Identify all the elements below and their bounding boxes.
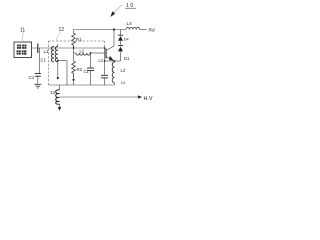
dashed block 12: [49, 41, 105, 85]
emitter wire: [104, 60, 121, 62]
wire jog: [73, 48, 75, 53]
top bus wire: [74, 29, 127, 31]
svg-text:11: 11: [20, 28, 25, 34]
transistor Q1: [106, 46, 114, 61]
node winding bottom: [57, 77, 59, 79]
node base branch: [90, 52, 92, 54]
svg-text:C2: C2: [98, 58, 104, 63]
collector wire: [113, 30, 115, 47]
output wire H.V: [60, 95, 143, 98]
svg-text:H.V: H.V: [144, 96, 153, 102]
inductor L3 emitter: [112, 61, 114, 85]
svg-text:C1: C1: [29, 75, 35, 80]
capacitor C3 branch: [101, 48, 108, 85]
svg-text:13: 13: [50, 90, 56, 95]
arrow down: [58, 107, 61, 111]
node C1 branch: [37, 44, 39, 54]
inductor L4: [126, 27, 147, 29]
svg-text:C1: C1: [41, 58, 47, 63]
ground bus wire: [49, 84, 115, 86]
power source box 11: [14, 42, 32, 58]
svg-text:Rd: Rd: [149, 28, 155, 34]
figure number 10: [125, 3, 136, 9]
inductor L2: [76, 53, 105, 55]
svg-text:L3: L3: [121, 68, 126, 73]
resistor R2: [72, 53, 76, 85]
leader arrow to figure: [111, 5, 123, 18]
wire main bus: [32, 47, 105, 49]
svg-text:D1: D1: [124, 56, 130, 61]
svg-text:12: 12: [59, 27, 65, 33]
capacitor C2: [87, 53, 94, 85]
svg-text:14: 14: [121, 80, 126, 85]
svg-text:D4: D4: [124, 38, 129, 42]
ground: [34, 84, 41, 88]
node R1 bottom: [73, 47, 75, 49]
diode D2: [118, 46, 123, 61]
svg-text:L1: L1: [44, 49, 50, 54]
svg-text:L4: L4: [127, 21, 133, 27]
wire secondary tap: [57, 60, 67, 86]
node top bus: [113, 28, 115, 30]
label 11: [20, 28, 25, 42]
svg-text:C1: C1: [84, 69, 90, 74]
svg-text:R1: R1: [76, 37, 82, 42]
diode D1: [118, 30, 123, 46]
resistor R1: [72, 30, 76, 49]
base wire: [74, 52, 77, 54]
inductor L3b secondary: [56, 85, 60, 107]
label 12: [56, 27, 64, 41]
svg-text:R2: R2: [77, 67, 83, 72]
inductor L1 winding: [51, 44, 57, 78]
node emitter branch top: [104, 47, 106, 49]
svg-text:L2: L2: [80, 48, 85, 53]
capacitor C1: [35, 48, 41, 84]
